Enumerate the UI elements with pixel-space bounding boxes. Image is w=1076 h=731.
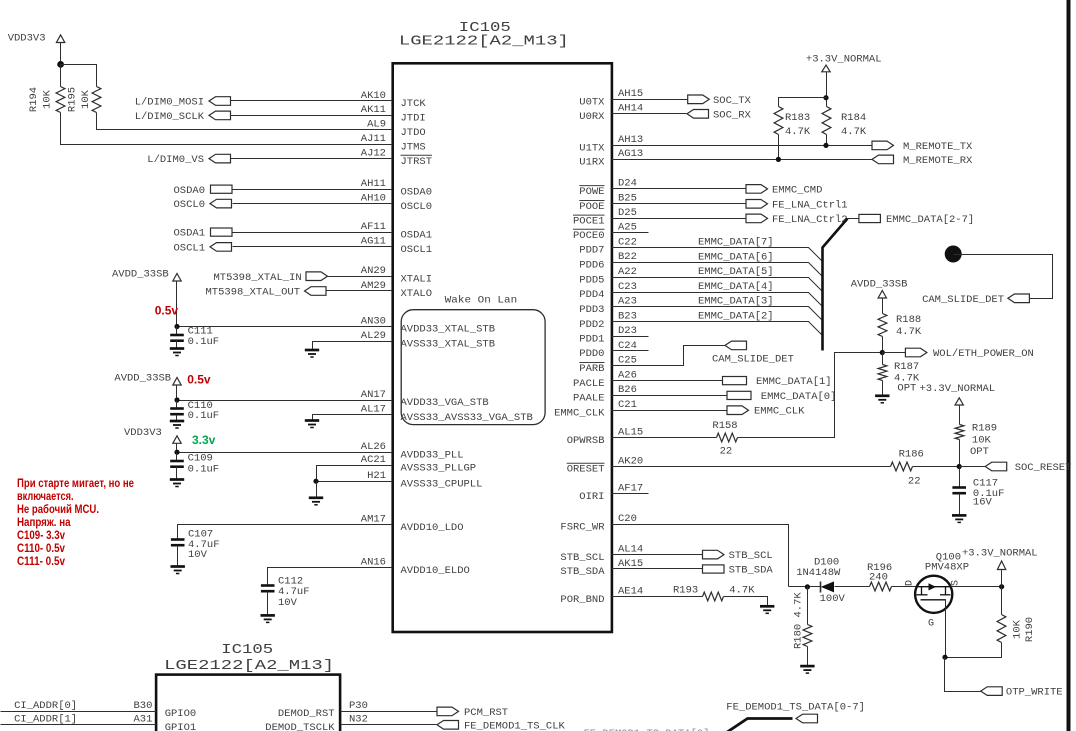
capacitor C110 0.1uF bbox=[176, 401, 178, 409]
wire R195 bottom to JTDO pin AL9 bbox=[97, 113, 393, 130]
svg-text:AL9: AL9 bbox=[367, 119, 386, 131]
wire FSRC node horizontal bbox=[789, 586, 821, 588]
svg-text:DEMOD_TSCLK: DEMOD_TSCLK bbox=[265, 722, 335, 731]
wire AVDD10_LDO pin AM17 to C107 bbox=[178, 525, 393, 540]
svg-text:EMMC_CLK: EMMC_CLK bbox=[554, 407, 605, 419]
node junction C109 bbox=[174, 450, 179, 455]
svg-text:VDD3V3: VDD3V3 bbox=[8, 32, 46, 44]
svg-text:AVSS33_XTAL_STB: AVSS33_XTAL_STB bbox=[401, 338, 496, 350]
svg-text:JTDO: JTDO bbox=[401, 127, 426, 139]
svg-text:AM17: AM17 bbox=[361, 513, 386, 525]
svg-text:AVDD_33SB: AVDD_33SB bbox=[851, 278, 908, 290]
svg-text:Напряж. на: Напряж. на bbox=[17, 515, 71, 529]
svg-text:Не рабочий MCU.: Не рабочий MCU. bbox=[17, 502, 99, 516]
ground under R180 bbox=[800, 666, 814, 673]
wire stub PDD1 pin D23 bbox=[612, 336, 649, 338]
node junction AC21/H21 bbox=[313, 479, 318, 484]
resistor R196 240 bbox=[870, 582, 892, 591]
svg-text:IC105: IC105 bbox=[221, 642, 273, 658]
net flag CAM_SLIDE_DET (top right) bbox=[1008, 294, 1030, 303]
svg-text:L/DIM0_SCLK: L/DIM0_SCLK bbox=[135, 111, 205, 123]
svg-text:EMMC_DATA[3]: EMMC_DATA[3] bbox=[698, 296, 774, 308]
svg-text:AVSS33_CPUPLL: AVSS33_CPUPLL bbox=[401, 478, 483, 490]
svg-text:AH15: AH15 bbox=[618, 88, 643, 100]
node junction gate/OTP bbox=[942, 655, 947, 660]
op-amp U1 main IC105 body LGE2122 bbox=[393, 63, 612, 632]
svg-text:OIRI: OIRI bbox=[579, 491, 604, 503]
resistor R195 10K bbox=[92, 87, 101, 113]
wire CI_ADDR[1] pin A31 bbox=[1, 724, 157, 726]
svg-text:AVDD10_LDO: AVDD10_LDO bbox=[401, 522, 464, 534]
wire to R183 top bbox=[779, 98, 827, 107]
svg-text:POR_BND: POR_BND bbox=[560, 594, 604, 606]
ground under C107 bbox=[171, 567, 185, 574]
net flag L/DIM0_VS bbox=[209, 154, 231, 163]
svg-text:4.7K: 4.7K bbox=[896, 326, 922, 338]
svg-text:AVDD33_PLL: AVDD33_PLL bbox=[401, 449, 464, 461]
svg-text:G: G bbox=[928, 619, 934, 630]
ground under R187 bbox=[875, 396, 889, 403]
svg-text:SOC_TX: SOC_TX bbox=[713, 95, 752, 107]
wire bus to flag bbox=[848, 218, 859, 220]
node junction R183/R184 top bbox=[823, 95, 828, 100]
svg-text:R184: R184 bbox=[841, 112, 866, 124]
svg-text:AJ12: AJ12 bbox=[361, 147, 386, 159]
svg-text:B23: B23 bbox=[618, 310, 637, 322]
resistor R190 10K bbox=[997, 615, 1006, 643]
svg-text:EMMC_DATA[6]: EMMC_DATA[6] bbox=[698, 251, 774, 263]
svg-text:PDD2: PDD2 bbox=[579, 319, 604, 331]
svg-text:При старте мигает, но не: При старте мигает, но не bbox=[17, 476, 134, 490]
ground AL17 bbox=[305, 421, 319, 428]
wire +3.3V stem to junction bbox=[1001, 570, 1003, 587]
wire U0TX pin AH15 bbox=[612, 99, 688, 101]
resistor R180 4.7K (to ground) bbox=[807, 587, 809, 625]
svg-text:OSCL1: OSCL1 bbox=[401, 244, 433, 256]
wire STB_SDA pin AK15 bbox=[612, 568, 703, 570]
wire OSDA1 pin AF11 bbox=[233, 232, 393, 234]
wire stub PDD0 pin C24 bbox=[612, 350, 649, 352]
svg-text:0.5v: 0.5v bbox=[155, 304, 179, 318]
svg-text:R186: R186 bbox=[899, 449, 924, 461]
wire XTALI pin AN29 bbox=[327, 276, 393, 278]
wire POR_BND pin AE14 to R193 bbox=[612, 596, 703, 598]
resistor R186 22 bbox=[891, 462, 913, 471]
svg-text:PDD6: PDD6 bbox=[579, 260, 604, 272]
svg-text:R158: R158 bbox=[712, 420, 737, 432]
svg-text:SOC_RX: SOC_RX bbox=[713, 109, 752, 121]
svg-text:A22: A22 bbox=[618, 266, 637, 278]
wire R194 bottom to JTMS pin AJ11 bbox=[61, 113, 393, 145]
svg-text:CI_ADDR[0]: CI_ADDR[0] bbox=[14, 700, 77, 712]
wire EMMC_DATA[5] bbox=[612, 278, 823, 292]
resistor R184 4.7K bbox=[822, 107, 831, 135]
svg-text:C111- 0.5v: C111- 0.5v bbox=[17, 554, 65, 568]
svg-text:GPIO0: GPIO0 bbox=[165, 708, 197, 720]
svg-text:+3.3V_NORMAL: +3.3V_NORMAL bbox=[920, 383, 996, 395]
svg-text:A25: A25 bbox=[618, 221, 637, 233]
resistor R187 4.7K OPT bbox=[878, 365, 887, 381]
svg-text:PDD3: PDD3 bbox=[579, 304, 604, 316]
svg-text:PCM_RST: PCM_RST bbox=[464, 707, 508, 719]
svg-text:10K: 10K bbox=[42, 89, 54, 109]
svg-text:EMMC_DATA[2-7]: EMMC_DATA[2-7] bbox=[886, 214, 974, 226]
wire gate node to OTP_WRITE bbox=[945, 658, 981, 692]
wire junction to R187 bbox=[882, 353, 884, 365]
net flag M_REMOTE_TX bbox=[872, 141, 894, 150]
svg-text:U0RX: U0RX bbox=[579, 111, 605, 123]
wire stub OIRI pin AF17 bbox=[612, 493, 649, 495]
svg-text:SOC_RESET: SOC_RESET bbox=[1015, 462, 1072, 474]
net flag EMMC_DATA[0] bbox=[727, 391, 751, 399]
svg-text:JTRST: JTRST bbox=[401, 156, 433, 168]
svg-text:FE_LNA_Ctrl1: FE_LNA_Ctrl1 bbox=[772, 199, 848, 211]
svg-text:AN16: AN16 bbox=[361, 557, 386, 569]
resistor R193 4.7K bbox=[703, 592, 724, 601]
wire U0RX pin AH14 bbox=[612, 113, 687, 115]
svg-text:R183: R183 bbox=[785, 112, 810, 124]
svg-text:XTALO: XTALO bbox=[401, 288, 433, 300]
net flag FE_DEMOD1_TS_DATA[0-7] bbox=[796, 714, 818, 723]
wire R188 to WOL junction bbox=[882, 337, 884, 353]
svg-text:D25: D25 bbox=[618, 207, 637, 219]
svg-text:22: 22 bbox=[720, 446, 733, 458]
net flag OSDA0 bbox=[211, 185, 233, 193]
svg-text:AF17: AF17 bbox=[618, 483, 643, 495]
svg-text:AL29: AL29 bbox=[361, 330, 386, 342]
svg-text:AVSS33_PLLGP: AVSS33_PLLGP bbox=[401, 463, 477, 475]
svg-text:OSCL0: OSCL0 bbox=[173, 199, 205, 211]
svg-text:C23: C23 bbox=[618, 281, 637, 293]
wire FSRC_WR pin C20 bbox=[612, 525, 789, 587]
svg-text:B25: B25 bbox=[618, 193, 637, 205]
svg-text:S: S bbox=[951, 580, 962, 586]
wire PACLE pin A26 bbox=[612, 380, 723, 382]
resistor R189 10K OPT bbox=[955, 425, 964, 440]
svg-text:FE_LNA_Ctrl2: FE_LNA_Ctrl2 bbox=[772, 214, 848, 226]
net flag OSCL1 bbox=[210, 243, 232, 252]
wire +3.3V to R189 bbox=[959, 405, 961, 425]
svg-text:16V: 16V bbox=[973, 497, 993, 509]
svg-text:OSDA0: OSDA0 bbox=[173, 185, 205, 197]
svg-text:OPT: OPT bbox=[897, 383, 916, 395]
svg-text:AH11: AH11 bbox=[361, 178, 386, 190]
ground under C117 bbox=[952, 515, 966, 522]
annotation russian note (red) bbox=[17, 476, 134, 568]
svg-text:10V: 10V bbox=[188, 549, 208, 561]
wire AVDD10_ELDO pin AN16 to C112 bbox=[268, 568, 393, 586]
svg-text:C22: C22 bbox=[618, 236, 637, 248]
svg-text:R195: R195 bbox=[67, 87, 79, 112]
main IC right pin numbers and names bbox=[554, 88, 643, 606]
svg-text:+3.3V_NORMAL: +3.3V_NORMAL bbox=[806, 53, 882, 65]
svg-text:M_REMOTE_TX: M_REMOTE_TX bbox=[903, 141, 973, 153]
svg-text:GPIO1: GPIO1 bbox=[165, 722, 197, 731]
svg-text:POCE1: POCE1 bbox=[573, 216, 605, 228]
svg-text:EMMC_DATA[2]: EMMC_DATA[2] bbox=[698, 311, 774, 323]
svg-text:EMMC_CLK: EMMC_CLK bbox=[754, 406, 805, 418]
net flag EMMC_DATA[2-7] bbox=[859, 214, 881, 222]
wire AVDD_33SB to AVDD33_VGA_STB pin AN17 bbox=[176, 385, 178, 401]
svg-text:AH13: AH13 bbox=[618, 134, 643, 146]
net flag L/DIM0_MOSI bbox=[209, 97, 231, 106]
svg-text:22: 22 bbox=[908, 476, 921, 488]
svg-text:A26: A26 bbox=[618, 369, 637, 381]
node junction SOC_RESET bbox=[957, 464, 962, 469]
svg-text:OPWRSB: OPWRSB bbox=[567, 435, 605, 447]
svg-text:+3.3V_NORMAL: +3.3V_NORMAL bbox=[962, 547, 1038, 559]
svg-text:Wake On Lan: Wake On Lan bbox=[445, 294, 518, 306]
svg-text:U0TX: U0TX bbox=[579, 97, 605, 109]
wire JTCK pin AK10 bbox=[231, 100, 393, 102]
wire JTDI pin AK11 bbox=[231, 115, 393, 117]
svg-text:LGE2122[A2_M13]: LGE2122[A2_M13] bbox=[164, 658, 334, 674]
svg-text:FE_DEMOD1_TS_CLK: FE_DEMOD1_TS_CLK bbox=[464, 720, 566, 731]
svg-text:B22: B22 bbox=[618, 251, 637, 263]
net flag MT5398_XTAL_OUT bbox=[305, 287, 327, 296]
node junction VDD3V3/R194/R195 bbox=[57, 61, 64, 68]
wire OPWRSB pin AL15 to R158 bbox=[612, 437, 717, 439]
svg-text:STB_SCL: STB_SCL bbox=[729, 550, 773, 562]
net flag WOL/ETH_POWER_ON bbox=[905, 348, 927, 357]
svg-text:EMMC_CMD: EMMC_CMD bbox=[772, 184, 822, 196]
svg-text:JTCK: JTCK bbox=[401, 98, 427, 110]
svg-text:M_REMOTE_RX: M_REMOTE_RX bbox=[903, 155, 973, 167]
wire R193 to ground bbox=[724, 597, 768, 607]
sheet border (right edge) bbox=[1067, 0, 1071, 731]
net flag SOC_TX bbox=[688, 95, 710, 104]
svg-text:4.7K: 4.7K bbox=[729, 584, 755, 596]
node junction R184/U1TX bbox=[823, 143, 828, 148]
svg-text:0.1uF: 0.1uF bbox=[188, 463, 220, 475]
wire EMMC_DATA[3] bbox=[612, 307, 823, 321]
svg-text:OSDA0: OSDA0 bbox=[401, 186, 433, 198]
svg-text:AH14: AH14 bbox=[618, 103, 643, 115]
svg-text:R193: R193 bbox=[673, 584, 698, 596]
net flag SOC_RX bbox=[687, 110, 709, 119]
svg-text:P30: P30 bbox=[349, 700, 368, 712]
svg-text:R188: R188 bbox=[896, 314, 921, 326]
svg-text:DEMOD_RST: DEMOD_RST bbox=[278, 708, 335, 720]
svg-text:C25: C25 bbox=[618, 355, 637, 367]
wire XTALO pin AM29 bbox=[327, 290, 393, 292]
svg-text:0.5v: 0.5v bbox=[187, 373, 211, 387]
svg-text:AH10: AH10 bbox=[361, 192, 386, 204]
wire CI_ADDR[0] pin B30 bbox=[1, 711, 157, 713]
svg-text:POWE: POWE bbox=[579, 186, 604, 198]
wire POOE pin B25 bbox=[612, 203, 747, 205]
svg-text:AL14: AL14 bbox=[618, 543, 643, 555]
bus EMMC_DATA[2-7] thick line bbox=[823, 219, 848, 351]
wire R184 bottom to U1TX line bbox=[826, 135, 828, 146]
wire stub POCE0 pin A25 bbox=[612, 232, 649, 234]
svg-text:L/DIM0_VS: L/DIM0_VS bbox=[147, 154, 204, 166]
net flag EMMC_CLK bbox=[727, 406, 749, 415]
ground under R193 bbox=[760, 606, 774, 613]
svg-text:FE_DEMOD1_TS_DATA[0-7]: FE_DEMOD1_TS_DATA[0-7] bbox=[726, 702, 865, 714]
svg-text:R180 4.7K: R180 4.7K bbox=[793, 592, 805, 649]
svg-text:0.1uF: 0.1uF bbox=[188, 336, 220, 348]
svg-text:POCE0: POCE0 bbox=[573, 230, 605, 242]
wire DEMOD_TSCLK pin N32 bbox=[341, 724, 437, 726]
svg-text:U1TX: U1TX bbox=[579, 143, 605, 155]
svg-text:C21: C21 bbox=[618, 399, 637, 411]
svg-text:POOE: POOE bbox=[579, 201, 604, 213]
wire OSCL0 pin AH10 bbox=[233, 203, 393, 205]
wire VDD3V3 to AVDD33_PLL pin AL26 bbox=[176, 444, 178, 453]
wire R187 to ground bbox=[882, 381, 884, 396]
resistor R158 22 bbox=[717, 433, 738, 442]
svg-text:10K: 10K bbox=[1012, 619, 1024, 639]
svg-text:AM29: AM29 bbox=[361, 280, 386, 292]
svg-text:OPT: OPT bbox=[970, 446, 989, 458]
svg-text:CAM_SLIDE_DET: CAM_SLIDE_DET bbox=[922, 294, 1004, 306]
wire AVDD_33SB to AVDD33_XTAL_STB pin AN30 bbox=[176, 281, 178, 327]
svg-text:AVDD33_XTAL_STB: AVDD33_XTAL_STB bbox=[401, 324, 496, 336]
wire Q100 source to +3.3V junction bbox=[951, 586, 1002, 588]
svg-text:AN30: AN30 bbox=[361, 315, 386, 327]
svg-text:100V: 100V bbox=[820, 593, 846, 605]
wire OSCL1 pin AG11 bbox=[233, 246, 393, 248]
svg-text:AK11: AK11 bbox=[361, 104, 386, 116]
svg-text:AG11: AG11 bbox=[361, 236, 386, 248]
svg-text:PMV48XP: PMV48XP bbox=[925, 562, 969, 574]
svg-text:AG13: AG13 bbox=[618, 148, 643, 160]
svg-text:PDD1: PDD1 bbox=[579, 334, 604, 346]
svg-text:STB_SDA: STB_SDA bbox=[560, 566, 605, 578]
net flag SOC_RESET bbox=[985, 462, 1007, 471]
node junction Q100 source bbox=[999, 584, 1004, 589]
wire R196 to Q100 drain bbox=[892, 586, 917, 588]
svg-text:PDD4: PDD4 bbox=[579, 289, 604, 301]
wire EMMC_DATA[7] bbox=[612, 248, 823, 262]
net flag OTP_WRITE bbox=[981, 687, 1003, 696]
svg-text:AF11: AF11 bbox=[361, 221, 386, 233]
svg-text:EMMC_DATA[0]: EMMC_DATA[0] bbox=[761, 391, 837, 403]
wire R194 top bbox=[60, 65, 62, 87]
svg-text:OSDA1: OSDA1 bbox=[401, 229, 433, 241]
wire AVSS33_PLLGP pin AC21 bbox=[317, 466, 393, 482]
wire OSDA0 pin AH11 bbox=[233, 189, 393, 191]
svg-text:AVDD_33SB: AVDD_33SB bbox=[112, 269, 169, 281]
svg-text:D23: D23 bbox=[618, 325, 637, 337]
svg-text:PAALE: PAALE bbox=[573, 393, 605, 405]
svg-text:B30: B30 bbox=[133, 700, 152, 712]
capacitor C109 0.1uF bbox=[176, 453, 178, 461]
node junction C111 bbox=[174, 324, 179, 329]
net flag MT5398_XTAL_IN bbox=[306, 272, 328, 281]
svg-text:AVDD_33SB: AVDD_33SB bbox=[114, 373, 171, 385]
svg-text:PDD7: PDD7 bbox=[579, 245, 604, 257]
net flag EMMC_DATA[1] bbox=[723, 377, 747, 385]
wire U1TX pin AH13 to M_REMOTE_TX bbox=[612, 145, 873, 147]
wire PARB pin C25 to CAM_SLIDE_DET bbox=[612, 346, 725, 366]
wire R189 to junction bbox=[959, 440, 961, 467]
wire junction to R190 bbox=[1001, 587, 1003, 615]
svg-text:MT5398_XTAL_OUT: MT5398_XTAL_OUT bbox=[205, 287, 300, 299]
svg-text:AVSS33_AVSS33_VGA_STB: AVSS33_AVSS33_VGA_STB bbox=[401, 412, 533, 424]
wire U1RX pin AG13 to M_REMOTE_RX bbox=[612, 159, 873, 161]
wire junction to C117 bbox=[959, 467, 961, 488]
net flag FE_LNA_Ctrl2 bbox=[746, 214, 768, 223]
wire EMMC_DATA[2] bbox=[612, 322, 823, 336]
svg-text:A23: A23 bbox=[618, 296, 637, 308]
wire PAALE pin B26 bbox=[612, 395, 727, 397]
svg-text:AJ11: AJ11 bbox=[361, 133, 386, 145]
svg-text:PDD0: PDD0 bbox=[579, 348, 604, 360]
ground under C110 bbox=[170, 421, 184, 428]
wire STB_SCL pin AL14 bbox=[612, 554, 703, 556]
wire R180 to ground bbox=[807, 647, 809, 667]
svg-text:JTDI: JTDI bbox=[401, 113, 426, 125]
capacitor C117 0.1uF 16V bbox=[952, 488, 966, 494]
wire +3.3V stem bbox=[826, 72, 828, 107]
wire to R195 top bbox=[61, 65, 97, 87]
net flag CAM_SLIDE_DET (mid) bbox=[725, 341, 747, 350]
net flag STB_SDA bbox=[703, 565, 725, 573]
wire EMMC_DATA[4] bbox=[612, 293, 823, 307]
wire EMMC_CLK pin C21 bbox=[612, 410, 727, 412]
svg-text:ORESET: ORESET bbox=[567, 464, 605, 476]
svg-text:AVDD33_VGA_STB: AVDD33_VGA_STB bbox=[401, 397, 489, 409]
wire junction to SOC_RESET flag bbox=[960, 466, 986, 468]
wire AVDD_33SB to R188 bbox=[882, 299, 884, 314]
transistor Q100 PMV48XP (PMOS) bbox=[915, 576, 952, 613]
svg-text:H21: H21 bbox=[367, 470, 386, 482]
svg-text:AK20: AK20 bbox=[618, 455, 643, 467]
svg-text:10K: 10K bbox=[972, 435, 992, 447]
svg-text:240: 240 bbox=[869, 572, 888, 584]
node junction WOL bbox=[880, 350, 885, 355]
svg-text:C109- 3.3v: C109- 3.3v bbox=[17, 528, 65, 542]
wire junction to WOL flag bbox=[883, 352, 906, 354]
svg-text:10K: 10K bbox=[80, 89, 92, 109]
resistor R183 4.7K bbox=[774, 107, 783, 135]
svg-text:WOL/ETH_POWER_ON: WOL/ETH_POWER_ON bbox=[933, 348, 1034, 360]
svg-text:AL17: AL17 bbox=[361, 404, 386, 416]
capacitor C107 4.7uF 10V bbox=[171, 540, 185, 546]
svg-text:AN29: AN29 bbox=[361, 265, 386, 277]
svg-text:D24: D24 bbox=[618, 178, 637, 190]
diode D100 1N4148W 100V bbox=[820, 582, 822, 593]
svg-text:AE14: AE14 bbox=[618, 586, 643, 598]
wire ORESET pin AK20 to R186 bbox=[612, 466, 891, 468]
svg-text:OSDA1: OSDA1 bbox=[173, 228, 205, 240]
wire R186 to SOC_RESET junction bbox=[913, 466, 960, 468]
ground under C109 bbox=[170, 480, 184, 487]
svg-text:EMMC_DATA[1]: EMMC_DATA[1] bbox=[756, 376, 832, 388]
wire EMMC_DATA[6] bbox=[612, 263, 823, 277]
svg-text:4.7K: 4.7K bbox=[785, 126, 811, 138]
capacitor C111 0.1uF bbox=[176, 327, 178, 335]
svg-text:OSCL1: OSCL1 bbox=[173, 243, 205, 255]
resistor R194 10K bbox=[56, 87, 65, 113]
node junction D100/R180 bbox=[805, 584, 810, 589]
svg-text:AN17: AN17 bbox=[361, 389, 386, 401]
wire R183 bottom to U1RX line bbox=[778, 135, 780, 160]
node big junction dot (CAM_SLIDE_DET) bbox=[945, 246, 962, 263]
svg-text:AC21: AC21 bbox=[361, 454, 386, 466]
svg-text:AVDD10_ELDO: AVDD10_ELDO bbox=[401, 565, 470, 577]
svg-text:STB_SCL: STB_SCL bbox=[560, 552, 604, 564]
svg-text:PACLE: PACLE bbox=[573, 378, 605, 390]
svg-text:LGE2122[A2_M13]: LGE2122[A2_M13] bbox=[399, 34, 569, 50]
svg-text:R194: R194 bbox=[28, 87, 40, 112]
wire Q100 gate down bbox=[945, 600, 947, 658]
svg-text:CI_ADDR[1]: CI_ADDR[1] bbox=[14, 714, 77, 726]
svg-text:N32: N32 bbox=[349, 714, 368, 726]
svg-text:B26: B26 bbox=[618, 384, 637, 396]
